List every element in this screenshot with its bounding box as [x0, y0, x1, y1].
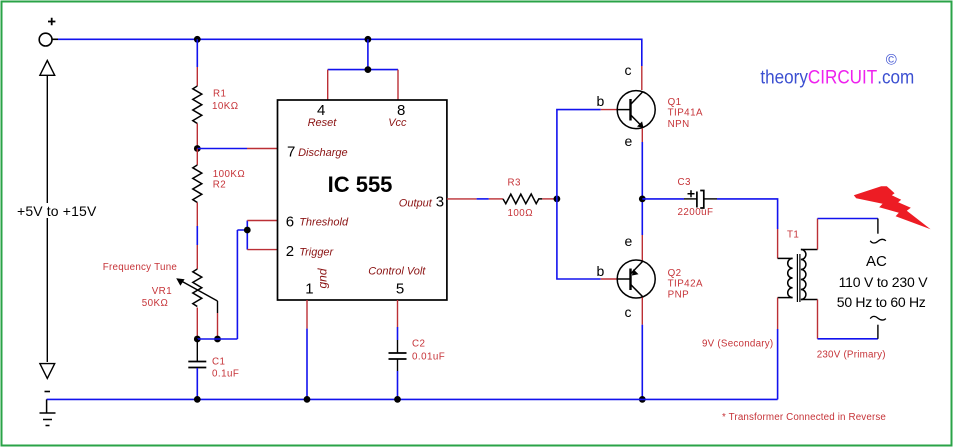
node: C1 ground [194, 396, 201, 403]
svg-text:6: 6 [286, 213, 294, 230]
svg-text:10KΩ: 10KΩ [212, 101, 239, 112]
node: base junction [554, 196, 561, 203]
svg-text:110 V to 230 V: 110 V to 230 V [839, 274, 929, 290]
svg-text:T1: T1 [787, 229, 799, 240]
svg-text:b: b [597, 263, 605, 279]
resistor R3 [503, 178, 542, 220]
transformer winding labels [702, 339, 886, 361]
svg-text:b: b [597, 93, 605, 109]
node: junction top rail / R1 [194, 36, 201, 43]
wire: to trigger/threshold riser [197, 221, 277, 340]
svg-text:e: e [625, 233, 633, 249]
svg-text:2: 2 [286, 243, 294, 260]
svg-text:7: 7 [287, 143, 295, 160]
svg-text:Trigger: Trigger [299, 246, 334, 258]
wire: Q1 emitter to C3 node [641, 129, 643, 262]
wire: pin5 to C2 [397, 300, 399, 353]
svg-text:Output: Output [399, 197, 433, 209]
svg-text:3: 3 [436, 193, 444, 210]
wire: R1 to node [196, 124, 198, 149]
svg-text:0.1uF: 0.1uF [212, 368, 239, 379]
svg-text:PNP: PNP [668, 290, 690, 301]
node: AC terminal bottom [870, 316, 886, 338]
wire: pin1 gnd [306, 300, 308, 399]
svg-text:R1: R1 [213, 88, 226, 99]
capacitor C3 [678, 177, 714, 218]
svg-text:TIP41A: TIP41A [668, 108, 703, 119]
svg-text:Threshold: Threshold [299, 217, 349, 229]
svg-text:* Transformer Connected in Rev: * Transformer Connected in Reverse [722, 412, 886, 423]
wire: ground rail [47, 398, 778, 400]
svg-text:5: 5 [396, 281, 404, 298]
node: pin1 ground [304, 396, 311, 403]
svg-text:Discharge: Discharge [298, 147, 348, 159]
svg-text:Q2: Q2 [668, 268, 682, 279]
capacitor C1 [188, 339, 239, 399]
svg-text:2200uF: 2200uF [678, 207, 714, 218]
svg-text:C3: C3 [678, 177, 692, 188]
wire: top supply rail [52, 39, 642, 90]
svg-text:9V (Secondary): 9V (Secondary) [702, 339, 774, 350]
AC load labels [837, 253, 928, 310]
wire: C3 node to capacitor [642, 198, 697, 200]
capacitor C2 [389, 339, 446, 400]
svg-text:C2: C2 [412, 339, 425, 350]
node A: +V terminal [39, 18, 55, 46]
wire: C3 to transformer primary-top [704, 199, 778, 259]
svg-text:Reset: Reset [308, 117, 338, 129]
svg-text:230V (Primary): 230V (Primary) [817, 350, 886, 361]
transformer T1 [778, 229, 818, 302]
node: wiper junction [214, 336, 221, 343]
node: collector/ground junction [639, 396, 646, 403]
svg-text:Vcc: Vcc [388, 117, 407, 129]
svg-text:gnd: gnd [316, 268, 330, 288]
node: threshold/trigger junction [244, 227, 251, 234]
wire: VR1 bottom and wiper to C1 node [197, 308, 217, 340]
node: AC terminal top [870, 219, 886, 243]
svg-text:C1: C1 [212, 356, 225, 367]
svg-text:50 Hz to 60 Hz: 50 Hz to 60 Hz [837, 294, 926, 310]
transistor Q1 [597, 62, 703, 149]
svg-text:AC: AC [866, 253, 887, 270]
wire: Q2 collector to ground rail [641, 298, 643, 400]
wire: node to pin7 [197, 148, 277, 150]
wire: base rail to Q1 [557, 110, 617, 199]
svg-text:theoryCIRCUIT.com: theoryCIRCUIT.com [760, 65, 914, 87]
node: VR1/C1 junction [194, 336, 201, 343]
svg-text:Q1: Q1 [668, 97, 682, 108]
wire: R3 to base node [542, 198, 557, 200]
wire: node to R2 [196, 149, 198, 166]
svg-text:NPN: NPN [668, 119, 690, 130]
wire: R2 to VR1 [196, 203, 198, 270]
wire: primary top to AC [818, 219, 878, 250]
supply arrow indicator [17, 61, 97, 379]
svg-text:VR1: VR1 [152, 286, 172, 297]
svg-text:R3: R3 [508, 178, 522, 189]
node: junction top rail / pin8-pin4 branch [365, 36, 372, 43]
wire: output pin3 to R3 [447, 198, 503, 200]
svg-text:IC 555: IC 555 [328, 172, 393, 197]
svg-text:TIP42A: TIP42A [668, 278, 703, 289]
potentiometer VR1 [103, 262, 218, 313]
svg-text:0.01uF: 0.01uF [412, 351, 445, 362]
wire: base rail to Q2 [557, 199, 617, 279]
node: C2 ground [394, 396, 401, 403]
svg-text:c: c [625, 304, 632, 320]
node: R1/R2/pin7 junction [194, 145, 201, 152]
transistor Q2 [597, 233, 703, 320]
wire: secondary bottom to ground rail [777, 298, 779, 400]
svg-text:Control Volt: Control Volt [368, 266, 426, 278]
svg-text:1: 1 [305, 281, 313, 298]
svg-text:e: e [625, 133, 633, 149]
svg-text:R2: R2 [213, 180, 226, 191]
ground [40, 392, 56, 426]
resistor R1 [193, 86, 239, 124]
wire: supply to R1 [196, 39, 198, 86]
svg-text:50KΩ: 50KΩ [142, 298, 169, 309]
svg-text:c: c [625, 62, 632, 78]
lightning bolt [854, 186, 931, 229]
svg-text:100Ω: 100Ω [508, 208, 533, 219]
IC 555 U1 [278, 100, 447, 300]
node: emitter/C3 junction [639, 196, 646, 203]
svg-text:+5V to +15V: +5V to +15V [17, 203, 97, 219]
wire: primary bottom to AC [818, 300, 878, 339]
resistor R2 [193, 165, 245, 203]
svg-text:Frequency Tune: Frequency Tune [103, 262, 178, 273]
node: junction vcc branch [365, 66, 372, 73]
wire: supply to reset/vcc [328, 39, 398, 100]
logo theoryCIRCUIT.com [760, 52, 914, 88]
